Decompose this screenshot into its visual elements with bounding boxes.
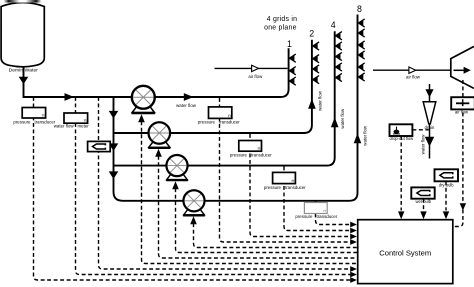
arrowhead into Control System (pressure transducer PT3) bbox=[350, 234, 357, 240]
wet-bulb sensor bbox=[411, 187, 434, 198]
arrowhead into Control System (pressure transducer PT1) bbox=[350, 277, 357, 283]
nozzle on grid 2 (#3) bbox=[313, 65, 319, 73]
arrowhead into Control System (water flow meter FM1) bbox=[350, 272, 357, 278]
arrowhead up into pump P2 bbox=[155, 149, 162, 157]
air flow sensor at diffuser bbox=[451, 97, 474, 109]
nozzle on grid 4 (#2) bbox=[336, 42, 342, 50]
arrowhead up into pump P3 bbox=[172, 181, 179, 189]
svg-text:one plane: one plane bbox=[264, 24, 297, 31]
pressure transducer PT2 bbox=[209, 107, 232, 119]
nozzle on grid 8 (#6) bbox=[358, 73, 364, 81]
svg-text:water flow: water flow bbox=[340, 108, 345, 129]
svg-text:4 grids in: 4 grids in bbox=[267, 16, 297, 23]
wire: dashed signal from wet-bulb sensor down to Control System bbox=[423, 199, 425, 211]
arrowhead right inside diffuser bbox=[454, 69, 465, 71]
open arrowhead air flow left bbox=[252, 65, 259, 71]
diffuser horn at air outlet bbox=[451, 46, 474, 88]
svg-text:water flow: water flow bbox=[421, 134, 426, 155]
svg-text:pressure: pressure bbox=[198, 119, 216, 124]
arrowhead up on grid 4 riser bbox=[331, 117, 339, 127]
pump P1 bbox=[132, 86, 156, 113]
svg-text:8: 8 bbox=[357, 4, 362, 14]
wire: branch to pump P3 and discharge to spray grid 4 bbox=[114, 165, 168, 167]
nozzle on grid 4 (#1) bbox=[336, 32, 342, 40]
nozzle on grid 8 (#5) bbox=[358, 63, 364, 71]
dry-bulb sensor bbox=[435, 169, 459, 181]
svg-text:air flow: air flow bbox=[406, 75, 421, 80]
svg-text:pressure: pressure bbox=[13, 119, 31, 124]
nozzle on grid 8 (#3) bbox=[358, 41, 364, 49]
wire: air flow line to outlet diffuser bbox=[373, 69, 451, 71]
wire: dashed signal from drop-out flow sensor down to Control System bbox=[400, 136, 402, 211]
pump P2 bbox=[148, 122, 170, 148]
nozzle on grid 4 (#5) bbox=[336, 73, 342, 81]
arrowhead into Control System (pressure transducer PT2) bbox=[350, 239, 357, 245]
svg-text:dry-bulb: dry-bulb bbox=[439, 182, 455, 187]
arrowhead right on main header bbox=[65, 93, 75, 101]
drain funnel bbox=[423, 102, 436, 124]
arrowhead up on grid 8 riser bbox=[354, 133, 362, 143]
svg-text:wet-bulb: wet-bulb bbox=[416, 199, 432, 204]
wire: droplet fall line into drain funnel bbox=[429, 84, 431, 102]
svg-text:meter: meter bbox=[78, 123, 90, 128]
svg-text:transducer: transducer bbox=[285, 185, 306, 190]
svg-text:water flow: water flow bbox=[362, 125, 367, 146]
svg-text:pressure: pressure bbox=[230, 152, 248, 157]
wire: dashed signal from pressure transducer PT1 to Control System bbox=[34, 97, 351, 280]
wire: dashed signal from pressure transducer PT5 to Control System bbox=[316, 214, 351, 225]
nozzle on grid 1 (#2) bbox=[289, 67, 295, 75]
svg-text:water flow: water flow bbox=[176, 103, 197, 108]
wire: dashed link drop-out sensor to drain bbox=[412, 129, 428, 131]
wire: dashed signal from water temperature sensor T1 to Control System bbox=[99, 97, 351, 269]
arrowhead up into pump P1 bbox=[138, 114, 145, 122]
wire: dashed control line from Control System to pump P4 bbox=[194, 223, 358, 247]
water flow meter FM1 bbox=[64, 113, 88, 123]
nozzle on grid 1 (#3) bbox=[289, 77, 295, 85]
svg-text:transducer: transducer bbox=[219, 119, 240, 124]
nozzle on grid 8 (#1) bbox=[358, 19, 364, 27]
svg-text:Control System: Control System bbox=[379, 248, 431, 257]
nozzle on grid 1 (#1) bbox=[289, 54, 295, 62]
svg-text:1: 1 bbox=[287, 39, 292, 49]
svg-text:transducer: transducer bbox=[35, 119, 56, 124]
svg-text:2: 2 bbox=[309, 29, 314, 39]
arrowhead down on manifold (3) bbox=[109, 171, 119, 179]
pump P3 bbox=[166, 155, 188, 180]
tank: demineralised water vessel bbox=[1, 3, 44, 67]
svg-text:water flow: water flow bbox=[317, 90, 322, 111]
open arrowhead air flow right bbox=[409, 67, 416, 73]
tank top rim shading bbox=[4, 0, 42, 3]
wire: dashed signal from pressure transducer PT4 to Control System bbox=[284, 167, 351, 231]
arrowhead up on grid 2 riser bbox=[308, 99, 316, 109]
wire: branch to pump P2 and discharge to spray grid 2 bbox=[114, 132, 150, 134]
arrowhead down into Control System (dry-bulb sensor) bbox=[443, 211, 449, 219]
arrowhead down into Control System (drop-out flow sensor) bbox=[398, 211, 404, 219]
wire: dashed signal from pressure transducer PT3 to Control System bbox=[250, 134, 351, 237]
arrowhead down into Control System (wet-bulb sensor) bbox=[420, 211, 426, 219]
arrowhead into Control System (water temperature sensor T1) bbox=[350, 266, 357, 272]
svg-text:air flow: air flow bbox=[248, 74, 263, 79]
pump P4 bbox=[183, 190, 205, 215]
arrowhead into Control System (pressure transducer PT5) bbox=[350, 222, 357, 228]
wire: pipe from tank to main header bbox=[24, 66, 133, 97]
svg-text:4: 4 bbox=[331, 20, 336, 30]
arrowhead down on manifold (2) bbox=[109, 143, 119, 151]
nozzle on grid 2 (#4) bbox=[313, 76, 319, 84]
svg-text:air flow: air flow bbox=[455, 109, 468, 114]
wire: dashed control line from Control System to pump P1 bbox=[142, 121, 358, 263]
wire: air flow line into spray section bbox=[215, 67, 288, 69]
nozzle on grid 4 (#3) bbox=[336, 52, 342, 60]
svg-text:pressure: pressure bbox=[264, 185, 282, 190]
drop-out flow sensor bbox=[390, 124, 413, 136]
svg-text:transducer: transducer bbox=[251, 152, 272, 157]
arrowhead right water flow after P1 bbox=[184, 93, 194, 101]
nozzle on grid 8 (#4) bbox=[358, 51, 364, 59]
arrowhead into Control System (pressure transducer PT4) bbox=[350, 228, 357, 234]
arrowhead down on manifold (1) bbox=[109, 111, 119, 119]
nozzle on grid 4 (#4) bbox=[336, 63, 342, 71]
svg-text:transducer: transducer bbox=[317, 214, 338, 219]
wire: dashed control line from Control System to pump P3 bbox=[176, 188, 358, 252]
wire: pump P1 discharge line to spray grid 1 bbox=[154, 48, 289, 97]
wire: dashed signal from dry-bulb sensor down to Control System bbox=[445, 181, 447, 210]
svg-text:water flow: water flow bbox=[54, 123, 75, 128]
nozzle on grid 2 (#1) bbox=[313, 42, 319, 50]
nozzle on grid 8 (#2) bbox=[358, 29, 364, 37]
water temperature sensor T1 bbox=[88, 141, 111, 151]
pressure transducer PT4 bbox=[273, 172, 296, 183]
wire: dashed signal from air flow sensor to Control System right side bbox=[462, 80, 464, 203]
nozzle on grid 2 (#2) bbox=[313, 55, 319, 63]
wire: vertical distribution manifold bbox=[114, 97, 123, 201]
control system box bbox=[358, 220, 453, 284]
pressure transducer PT3 bbox=[239, 141, 262, 152]
svg-text:drop-out flow: drop-out flow bbox=[389, 136, 413, 141]
wire: dashed signal from water flow meter FM1 to Control System bbox=[76, 97, 351, 275]
arrowhead down on air flow sensor line bbox=[460, 203, 466, 210]
svg-text:pressure: pressure bbox=[295, 214, 313, 219]
wire: pump P4 discharge line to spray grid 8 bbox=[123, 200, 185, 202]
wire: drain outfall line bbox=[429, 124, 431, 159]
pressure transducer PT5 (greyed) bbox=[315, 200, 317, 203]
pressure transducer PT1 bbox=[22, 108, 45, 119]
wire: dashed control line from Control System to pump P2 bbox=[159, 156, 358, 258]
arrowhead down on tank outlet bbox=[19, 77, 29, 85]
wire: dashed signal from pressure transducer PT2 to Control System bbox=[220, 98, 351, 242]
arrowhead up into pump P4 bbox=[190, 216, 197, 224]
